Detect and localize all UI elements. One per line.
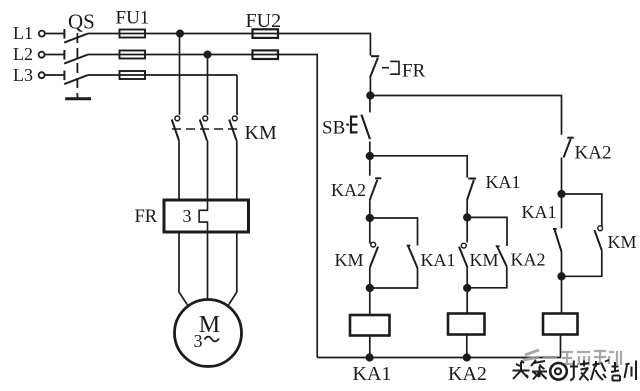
wire KA2 branch3 to node G	[561, 158, 563, 195]
switch QS pole 1	[64, 29, 88, 43]
svg-text:KM: KM	[335, 250, 364, 270]
svg-text:FU2: FU2	[246, 10, 282, 32]
wire KM contact 2 to FR box	[207, 141, 209, 199]
contact KA2 parallel (branch2)	[496, 246, 507, 266]
svg-text:FR: FR	[135, 207, 158, 227]
node G junction	[558, 191, 565, 198]
fuse FU1 element 1	[120, 30, 146, 38]
node F junction	[464, 285, 471, 292]
wire coil KM to bus	[560, 335, 562, 358]
contact KM aux normally-open (branch2)	[459, 243, 467, 267]
relay coil KA2	[448, 314, 485, 335]
FR heater element symbol	[199, 200, 207, 232]
svg-text:KA2: KA2	[448, 363, 487, 385]
contactor KM main contact 3	[229, 116, 237, 141]
FR thermal function symbol	[382, 61, 399, 74]
wire node E to parallel KA2 branch	[467, 217, 507, 246]
wire node G down to KA1 contact branch3	[561, 194, 563, 228]
wire node E down to KM aux branch2	[466, 217, 468, 242]
relay coil KA1	[350, 315, 390, 336]
wire L1 phase drop to KM contact 1	[179, 34, 181, 115]
node D junction	[367, 285, 374, 292]
wire QS to FU1 L1	[88, 33, 252, 35]
wire QS to FU1 L3	[88, 74, 237, 76]
wire FR box to motor middle	[207, 232, 209, 300]
fuse FU2 element 1	[253, 29, 279, 38]
fuse FU1 element 2	[120, 51, 146, 59]
node bus junction 1	[366, 354, 373, 361]
thermal relay FR heater box	[164, 200, 249, 232]
wire KM aux branch2 to node F	[466, 267, 468, 288]
QS linkage dashed bar	[65, 33, 91, 99]
contactor coil KM	[543, 314, 578, 335]
wire coil KA1 to bus	[369, 336, 371, 358]
contact KA2 normally-open (branch3)	[564, 138, 574, 158]
contactor KM main contact 2	[200, 116, 208, 141]
svg-text:L3: L3	[13, 65, 33, 85]
wire KA2 contact to node C	[369, 200, 371, 218]
svg-text:3: 3	[194, 331, 203, 351]
wire FR contact to node A	[369, 78, 371, 96]
wire L3 phase drop to KM contact 3	[236, 75, 238, 115]
wire L3 to QS	[45, 74, 64, 76]
pushbutton SB blade	[361, 115, 370, 140]
wire node B to branch2 top	[370, 156, 467, 178]
svg-text:KA1: KA1	[486, 172, 521, 192]
wire KM aux to node D	[369, 267, 371, 288]
svg-text:KA2: KA2	[575, 143, 612, 164]
node E junction	[464, 214, 471, 221]
svg-text:KA1: KA1	[421, 250, 456, 270]
watermark gray logo and text	[523, 350, 621, 365]
node C junction	[367, 215, 374, 222]
svg-text:KM: KM	[608, 232, 637, 252]
contact KM aux normally-open (branch1)	[370, 242, 378, 267]
svg-text:KM: KM	[245, 122, 277, 144]
node junction on L1	[177, 30, 183, 36]
svg-text:FU1: FU1	[116, 8, 150, 29]
contact FR normally-closed (control)	[370, 56, 379, 77]
contact KM aux parallel (branch3)	[594, 226, 602, 251]
node junction on L2	[204, 51, 210, 57]
node L2 terminal	[39, 52, 45, 58]
svg-text:KA2: KA2	[331, 180, 366, 200]
watermark black text 头条@技成培训	[513, 360, 548, 380]
wire node D to coil KA1	[369, 288, 371, 315]
contact KA1 normally-open (branch2)	[467, 179, 476, 201]
wire bottom bus	[317, 357, 561, 359]
svg-text:QS: QS	[68, 9, 95, 33]
wire parallel KM down back to node H	[562, 251, 602, 277]
wire coil KA2 to bus	[466, 335, 468, 358]
wire FU2 L1 to control rail corner	[252, 34, 370, 56]
wire KM contact 1 to FR box	[178, 141, 180, 199]
node B junction	[367, 153, 374, 160]
contact KA1 (branch3 main)	[553, 229, 562, 252]
wire FR box to motor right	[229, 232, 237, 305]
wire node H to coil KM	[561, 276, 563, 313]
contact KA1 parallel (branch1)	[407, 246, 418, 268]
wire KA1 branch3 to node H	[561, 252, 563, 276]
svg-text:KA1: KA1	[522, 202, 557, 222]
svg-text:FR: FR	[402, 60, 426, 81]
node bus junction 2	[464, 354, 471, 361]
wire L1 to QS	[45, 33, 64, 35]
svg-text:3: 3	[183, 206, 192, 226]
node H junction	[558, 273, 565, 280]
KM main contacts linkage dashed	[172, 128, 237, 130]
svg-text:KA1: KA1	[353, 363, 392, 385]
svg-text:KA2: KA2	[511, 250, 546, 270]
fuse FU2 element 2	[253, 50, 279, 59]
wire QS to FU1 L2	[88, 54, 252, 56]
svg-text:L1: L1	[13, 23, 33, 43]
wire node C down to KM aux contact	[369, 218, 371, 244]
wire FR box to motor left	[179, 232, 187, 305]
motor M circle	[175, 300, 242, 367]
contactor KM main contact 1	[172, 116, 180, 141]
wire node F to coil KA2	[466, 288, 468, 314]
wire parallel KA2 down back to node F	[467, 267, 507, 288]
switch QS pole 3	[64, 71, 88, 85]
switch QS pole 2	[64, 50, 88, 64]
svg-text:L2: L2	[13, 44, 33, 64]
wire FU2 L2 to left control rail	[252, 55, 317, 358]
wire KA1 contact to node E	[466, 200, 468, 217]
pushbutton SB actuator	[346, 117, 357, 133]
wire node G to parallel KM branch	[562, 194, 602, 227]
wire node B down to KA2 contact	[369, 156, 371, 176]
wire parallel KA1 down and back to node D	[370, 268, 418, 288]
wire node C to parallel KA1 branch	[370, 218, 418, 246]
wire L2 phase drop to KM contact 2	[207, 55, 209, 115]
svg-text:KM: KM	[470, 250, 499, 270]
wire node A down to SB	[369, 96, 371, 113]
wire KM contact 3 to FR box	[236, 141, 238, 199]
wire SB to node B	[369, 142, 371, 157]
wire L2 to QS	[45, 54, 64, 56]
node A junction	[367, 92, 374, 99]
fuse FU1 element 3	[120, 71, 146, 79]
node L3 terminal	[39, 72, 45, 78]
node L1 terminal	[39, 31, 45, 37]
wire node A to branch3 top	[370, 96, 561, 135]
contact KA2 normally-open (branch1)	[370, 178, 382, 200]
svg-text:SB: SB	[322, 117, 345, 138]
